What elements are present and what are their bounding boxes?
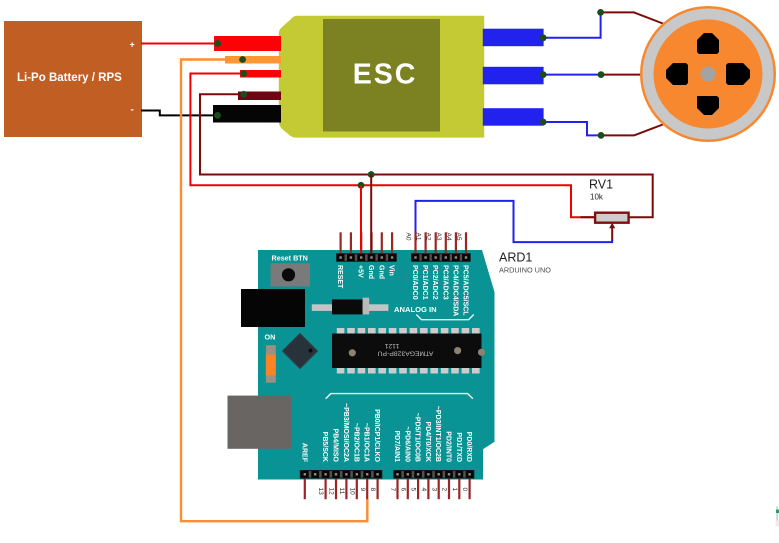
- svg-text:A1: A1: [415, 233, 422, 241]
- pin labels power header: [336, 265, 395, 289]
- arduino ARD1 board: [258, 250, 495, 480]
- junction dot red bar: [214, 40, 221, 47]
- wire red junction drop to +5V pin: [360, 185, 362, 253]
- ESC input bar orange: [225, 56, 281, 64]
- svg-text:PD4/T0/XCK: PD4/T0/XCK: [424, 422, 431, 462]
- svg-text:13: 13: [317, 488, 324, 496]
- svg-text:~PB3/MOSI/OC2A: ~PB3/MOSI/OC2A: [342, 403, 349, 462]
- svg-text:A5: A5: [455, 233, 462, 241]
- wire dark red phase 3 to motor: [601, 123, 668, 136]
- pin labels digital left header: [300, 403, 380, 463]
- junction dot phase 3: [598, 132, 605, 139]
- svg-text:0: 0: [461, 488, 468, 492]
- pin labels digital right header: [393, 406, 472, 462]
- ESC output bar blue 1: [483, 29, 544, 47]
- svg-text:A2: A2: [425, 233, 432, 241]
- motor pole right: [726, 63, 750, 85]
- svg-text:~PD6/AIN0: ~PD6/AIN0: [403, 426, 410, 462]
- IC ATMEGA328P-PU: [332, 328, 485, 374]
- svg-text:7: 7: [389, 488, 396, 492]
- svg-text:1121: 1121: [384, 342, 399, 349]
- svg-text:PC1/ADC1: PC1/ADC1: [421, 265, 428, 300]
- ESC module body: [279, 16, 484, 138]
- svg-text:Gnd: Gnd: [377, 265, 384, 279]
- svg-text:ESC: ESC: [353, 58, 418, 90]
- crystal X1 diamond: [282, 334, 317, 369]
- wire dark red from ESC to Gnd and RV1: [200, 94, 653, 217]
- ESC output bar blue 3: [483, 108, 544, 126]
- svg-text:9: 9: [359, 488, 366, 492]
- svg-text:PB5/SCK: PB5/SCK: [321, 432, 328, 462]
- svg-text:PD7/AIN1: PD7/AIN1: [393, 430, 400, 462]
- svg-text:RESET: RESET: [336, 265, 343, 289]
- junction dot orange bar: [239, 56, 246, 63]
- junction dot phase 2: [598, 71, 605, 78]
- junction dot dark red bar: [240, 91, 247, 98]
- svg-text:A0: A0: [405, 233, 412, 241]
- svg-text:~PD3/INT1/OC2B: ~PD3/INT1/OC2B: [434, 406, 441, 462]
- svg-text:PC5/ADC5/SCL: PC5/ADC5/SCL: [462, 265, 469, 316]
- pin labels analog header: [411, 265, 469, 316]
- wire dark red junction drop to Gnd pin: [370, 175, 372, 254]
- diode D1: [312, 298, 389, 315]
- motor pole top: [697, 33, 719, 54]
- USB connector: [228, 396, 292, 449]
- svg-text:11: 11: [338, 488, 345, 495]
- ESC input bar red thick: [214, 36, 281, 51]
- svg-text:+: +: [130, 40, 135, 50]
- wire blue phase 2: [543, 74, 601, 76]
- motor M1 BLDC: [640, 6, 776, 142]
- reset button: [271, 263, 311, 286]
- wire battery minus to ESC black input: [141, 111, 218, 116]
- potentiometer RV1: [581, 178, 629, 242]
- svg-text:Vin: Vin: [388, 265, 395, 276]
- wire orange from ESC signal down and around to arduino pin 8: [181, 60, 367, 522]
- wire red from ESC to +5V and RV1: [190, 74, 594, 218]
- wire battery plus to ESC red input: [141, 43, 218, 45]
- svg-text:PB4/MISO: PB4/MISO: [332, 429, 339, 463]
- svg-text:~PB2/OC1B: ~PB2/OC1B: [352, 423, 359, 462]
- svg-text:6: 6: [399, 488, 406, 492]
- svg-text:PC4/ADC4/SDA: PC4/ADC4/SDA: [451, 265, 458, 316]
- pin numbers 13-8: [317, 488, 376, 496]
- svg-text:4: 4: [420, 488, 427, 492]
- svg-text:8: 8: [369, 488, 376, 492]
- ESC output bar blue 2: [483, 67, 544, 85]
- svg-text:PD0/RXD: PD0/RXD: [465, 432, 472, 462]
- ESC input bar red thin: [240, 70, 281, 78]
- RV1 wiper arrow: [611, 227, 613, 242]
- pin numbers 7-0: [389, 488, 468, 492]
- motor shaft: [701, 67, 716, 82]
- svg-text:ARDUINO UNO: ARDUINO UNO: [499, 266, 551, 275]
- svg-text:2: 2: [441, 488, 448, 492]
- junction dot blue bar 2: [540, 71, 547, 78]
- svg-text:A3: A3: [435, 233, 442, 241]
- wire dark red phase 1 to motor: [601, 12, 668, 25]
- net labels A0-A5: [405, 233, 463, 241]
- svg-text:PC2/ADC2: PC2/ADC2: [431, 265, 438, 300]
- ESC input bar dark red: [238, 92, 281, 101]
- svg-text:PD1/TXD: PD1/TXD: [455, 432, 462, 462]
- svg-text:AREF: AREF: [300, 443, 307, 463]
- pin header header-digital-right: [393, 470, 474, 479]
- svg-text:10k: 10k: [590, 193, 604, 202]
- ESC input bar black: [213, 105, 281, 123]
- RV1 left terminal stub: [581, 216, 596, 218]
- svg-text:10: 10: [348, 488, 355, 496]
- svg-text:5: 5: [410, 488, 417, 492]
- svg-text:ON: ON: [265, 333, 276, 342]
- svg-text:-: -: [131, 105, 134, 116]
- pin header header-power: [336, 253, 397, 262]
- svg-text:3: 3: [430, 488, 437, 492]
- junction dot blue bar 1: [540, 34, 547, 41]
- svg-text:PB0/ICP1/CLKO: PB0/ICP1/CLKO: [373, 409, 380, 462]
- junction dot dark red to Gnd: [368, 171, 375, 178]
- svg-text:1: 1: [451, 488, 458, 492]
- wire blue from A0 to RV1 wiper: [416, 201, 613, 242]
- motor pole bottom: [697, 96, 719, 115]
- svg-text:ANALOG IN: ANALOG IN: [394, 305, 437, 314]
- junction dot blue bar 3: [540, 119, 547, 126]
- pin stems top headers: [341, 232, 466, 253]
- svg-text:PC3/ADC3: PC3/ADC3: [441, 265, 448, 300]
- svg-text:PC0/ADC0: PC0/ADC0: [411, 265, 418, 300]
- wire dark red phase 2 to motor: [601, 74, 644, 76]
- power jack: [241, 289, 305, 327]
- analog brace: [416, 315, 474, 320]
- junction dot red to +5V: [358, 182, 365, 189]
- svg-text:ATMEGA328P-PU: ATMEGA328P-PU: [378, 350, 434, 357]
- wire blue phase 1: [543, 12, 600, 37]
- junction dot phase 1 corner: [597, 9, 604, 16]
- svg-text:Gnd: Gnd: [367, 265, 374, 279]
- junction dot black bar: [214, 112, 221, 119]
- junction dot thin red bar: [240, 70, 247, 77]
- pin header header-digital-left: [300, 470, 383, 479]
- svg-text:Li-Po Battery / RPS: Li-Po Battery / RPS: [17, 72, 122, 84]
- battery BT1 Li-Po Battery / RPS: [4, 21, 142, 137]
- svg-text:~PD5/T1/OC0B: ~PD5/T1/OC0B: [414, 413, 421, 462]
- digital brace: [326, 394, 473, 399]
- svg-text:~PB1/OC1A: ~PB1/OC1A: [363, 423, 370, 462]
- svg-text:ARD1: ARD1: [499, 251, 532, 265]
- svg-text:PD2/INT0: PD2/INT0: [445, 431, 452, 462]
- svg-text:A4: A4: [445, 233, 452, 241]
- pin header header-analog: [411, 253, 471, 262]
- edge artifact green pin: [776, 506, 779, 526]
- power LED: [266, 345, 276, 383]
- pin stems bottom headers: [305, 479, 470, 500]
- motor pole left: [666, 63, 688, 85]
- svg-text:12: 12: [328, 488, 335, 496]
- wire blue phase 3: [543, 122, 601, 135]
- svg-text:RV1: RV1: [589, 178, 613, 192]
- svg-text:+5V: +5V: [357, 265, 364, 278]
- svg-text:Reset BTN: Reset BTN: [272, 254, 308, 263]
